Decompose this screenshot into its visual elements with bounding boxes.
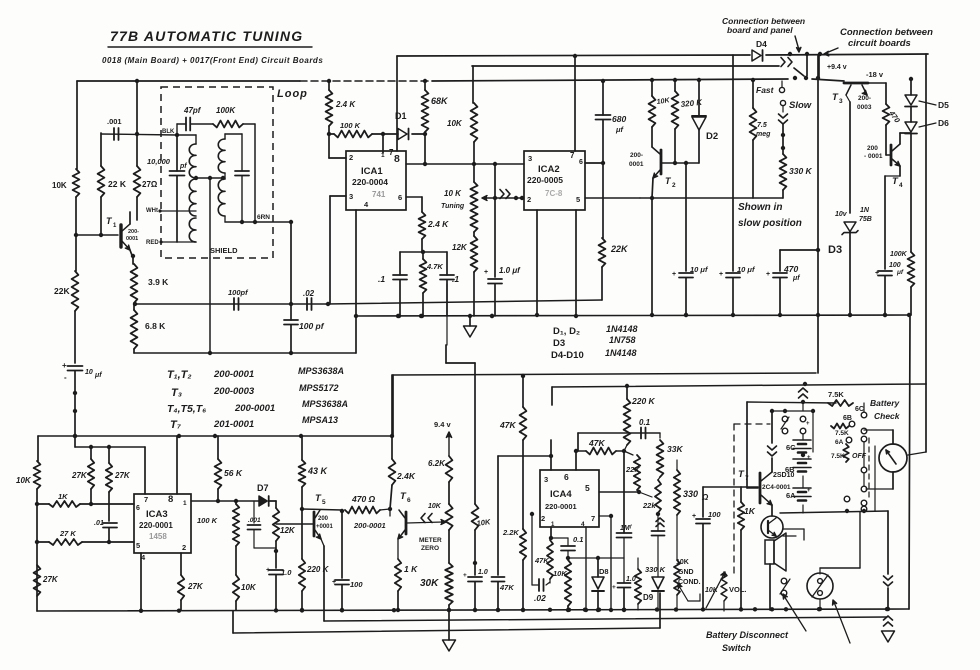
svg-text:220-0004: 220-0004 (352, 177, 388, 187)
svg-text:6: 6 (398, 193, 402, 202)
svg-text:5: 5 (322, 499, 326, 506)
svg-text:1.0: 1.0 (281, 568, 292, 577)
svg-text:10K: 10K (705, 587, 719, 594)
svg-text:3.9 K: 3.9 K (148, 277, 169, 287)
svg-text:Tuning: Tuning (441, 203, 465, 210)
svg-text:+9.4 v: +9.4 v (827, 64, 847, 71)
svg-text:200-0003: 200-0003 (213, 386, 255, 397)
svg-text:Connection between: Connection between (840, 27, 933, 38)
svg-text:+: + (766, 271, 770, 278)
svg-text:ICA4: ICA4 (550, 489, 572, 500)
svg-text:4: 4 (581, 521, 585, 528)
svg-text:27Ω: 27Ω (142, 180, 158, 189)
svg-text:27 K: 27 K (59, 529, 76, 538)
svg-text:4: 4 (899, 182, 903, 189)
svg-text:1: 1 (381, 152, 385, 159)
svg-text:2: 2 (182, 543, 186, 552)
svg-text:7.5K: 7.5K (831, 453, 845, 460)
svg-text:Battery Disconnect: Battery Disconnect (706, 630, 789, 640)
svg-text:Shown in: Shown in (738, 202, 782, 213)
svg-text:201-0001: 201-0001 (213, 419, 254, 430)
svg-text:Check: Check (874, 411, 901, 421)
svg-text:200: 200 (318, 516, 329, 522)
svg-text:12K: 12K (280, 526, 296, 535)
svg-text:T: T (665, 176, 672, 186)
svg-text:0001: 0001 (629, 161, 644, 168)
svg-text:9.4 v: 9.4 v (434, 420, 452, 429)
svg-text:100K: 100K (890, 251, 908, 258)
svg-text:100: 100 (350, 580, 363, 589)
svg-text:30K: 30K (420, 578, 439, 589)
svg-text:33K: 33K (667, 444, 683, 454)
svg-text:43 K: 43 K (307, 466, 329, 476)
svg-text:220 K: 220 K (631, 396, 656, 406)
svg-text:75B: 75B (859, 216, 872, 223)
svg-text:T: T (832, 92, 839, 103)
svg-text:47pf: 47pf (183, 106, 202, 115)
svg-text:BLK: BLK (162, 129, 175, 135)
svg-text:10K: 10K (676, 559, 689, 566)
svg-text:+: + (807, 488, 811, 494)
svg-text:T₁,T₂: T₁,T₂ (167, 369, 192, 381)
svg-text:.001: .001 (107, 117, 122, 126)
svg-text:100: 100 (889, 262, 901, 269)
svg-text:56 K: 56 K (224, 468, 243, 478)
svg-text:1N758: 1N758 (609, 335, 636, 345)
svg-text:+: + (807, 455, 811, 461)
svg-text:1 K: 1 K (404, 564, 418, 574)
svg-text:D5: D5 (938, 100, 949, 110)
svg-text:board and panel: board and panel (727, 25, 793, 35)
svg-text:3: 3 (839, 98, 843, 105)
svg-text:circuit boards: circuit boards (848, 38, 911, 49)
svg-text:6A: 6A (786, 491, 796, 500)
svg-text:1N4148: 1N4148 (606, 324, 638, 334)
svg-text:+: + (719, 271, 723, 278)
svg-text:10,000: 10,000 (147, 157, 171, 166)
svg-text:320 K: 320 K (680, 98, 703, 109)
svg-text:2.2K: 2.2K (502, 528, 519, 537)
svg-text:10K: 10K (476, 517, 491, 528)
svg-text:ZERO: ZERO (421, 545, 439, 552)
svg-text:4: 4 (364, 200, 369, 209)
svg-text:1.0: 1.0 (626, 576, 636, 583)
svg-text:10 μf: 10 μf (737, 265, 756, 274)
svg-text:220-0005: 220-0005 (527, 175, 563, 185)
svg-text:7C-8: 7C-8 (545, 189, 563, 198)
svg-text:D3: D3 (828, 244, 842, 256)
svg-text:Switch: Switch (722, 643, 752, 653)
svg-text:100pf: 100pf (228, 288, 249, 297)
svg-text:2: 2 (672, 182, 676, 189)
svg-text:+: + (672, 271, 676, 278)
svg-text:1Mᶠ: 1Mᶠ (620, 525, 633, 532)
svg-text:COND.: COND. (678, 579, 701, 586)
svg-text:- 0001: - 0001 (864, 153, 883, 160)
svg-text:ICA2: ICA2 (538, 164, 560, 175)
svg-text:3: 3 (528, 154, 532, 163)
svg-text:220-0001: 220-0001 (139, 521, 173, 530)
svg-text:1.0 μf: 1.0 μf (499, 266, 521, 275)
svg-text:6: 6 (579, 159, 583, 166)
svg-text:0003: 0003 (857, 104, 872, 111)
svg-text:100 pf: 100 pf (299, 321, 325, 331)
svg-text:μf: μf (896, 269, 904, 276)
svg-text:10v: 10v (835, 211, 848, 218)
svg-text:6B: 6B (785, 465, 795, 474)
svg-text:+: + (806, 421, 810, 427)
svg-text:D4-D10: D4-D10 (551, 350, 584, 361)
svg-text:10K: 10K (447, 119, 463, 128)
svg-text:6: 6 (407, 497, 411, 504)
svg-text:D6: D6 (938, 118, 949, 128)
svg-text:0.1: 0.1 (573, 535, 583, 544)
svg-text:7: 7 (591, 514, 595, 523)
svg-text:T: T (738, 469, 745, 480)
svg-text:6: 6 (564, 472, 569, 482)
svg-text:.1: .1 (452, 274, 459, 284)
svg-text:2.4K: 2.4K (396, 471, 416, 481)
svg-text:47K: 47K (534, 556, 549, 565)
svg-text:+: + (612, 584, 616, 591)
svg-text:22K: 22K (610, 244, 629, 254)
svg-text:5: 5 (585, 483, 590, 493)
svg-text:1: 1 (183, 500, 187, 507)
svg-text:+: + (484, 269, 488, 276)
svg-text:6.2K: 6.2K (428, 459, 446, 468)
svg-text:T: T (892, 176, 899, 187)
svg-text:slow position: slow position (738, 218, 802, 229)
svg-text:-18 v: -18 v (866, 70, 884, 79)
svg-text:10K: 10K (656, 97, 671, 106)
svg-text:77B AUTOMATIC TUNING: 77B AUTOMATIC TUNING (110, 28, 303, 44)
svg-text:μf: μf (94, 372, 102, 379)
svg-text:D9: D9 (643, 593, 654, 602)
svg-text:MPS3638A: MPS3638A (302, 399, 348, 409)
svg-text:T₃: T₃ (171, 387, 182, 399)
svg-text:2.4 K: 2.4 K (427, 219, 449, 229)
svg-text:330 K: 330 K (789, 166, 813, 176)
svg-text:D2: D2 (706, 131, 718, 142)
svg-text:T₇: T₇ (170, 419, 182, 431)
svg-text:μf: μf (792, 275, 800, 282)
svg-text:.01: .01 (94, 520, 104, 527)
svg-text:6A: 6A (835, 439, 844, 446)
svg-text:470 Ω: 470 Ω (351, 494, 376, 504)
svg-text:3: 3 (544, 475, 548, 484)
svg-text:GND: GND (678, 569, 694, 576)
svg-text:D7: D7 (257, 483, 269, 493)
svg-text:220 K: 220 K (306, 565, 330, 574)
svg-text:10K: 10K (16, 476, 32, 485)
svg-text:10K: 10K (428, 503, 442, 510)
svg-text:22k: 22k (642, 501, 656, 510)
svg-text:WHt: WHt (146, 208, 158, 214)
svg-text:100 K: 100 K (197, 516, 218, 525)
svg-text:100K: 100K (216, 106, 236, 115)
svg-text:VOL.: VOL. (729, 585, 747, 594)
svg-text:1: 1 (113, 223, 117, 229)
svg-text:2: 2 (541, 514, 545, 523)
svg-text:47K: 47K (588, 438, 605, 448)
svg-text:27K: 27K (71, 471, 88, 480)
svg-text:D3: D3 (553, 338, 565, 349)
svg-text:6C: 6C (786, 443, 796, 452)
svg-text:10: 10 (85, 369, 93, 376)
svg-text:1K: 1K (58, 492, 68, 501)
svg-text:470: 470 (783, 264, 798, 274)
svg-text:MPSA13: MPSA13 (302, 415, 338, 425)
svg-text:6RN: 6RN (257, 214, 270, 221)
svg-text:330 K: 330 K (645, 565, 666, 574)
svg-text:MPS3638A: MPS3638A (298, 366, 344, 376)
svg-text:7: 7 (570, 151, 575, 160)
svg-text:D8: D8 (599, 567, 609, 576)
svg-text:Slow: Slow (789, 100, 812, 111)
svg-text:10 μf: 10 μf (690, 265, 709, 274)
svg-text:D1: D1 (395, 111, 407, 121)
svg-text:Battery: Battery (870, 398, 901, 408)
svg-text:Loop: Loop (277, 88, 308, 100)
svg-text:10 K: 10 K (444, 189, 462, 198)
svg-text:meg: meg (756, 131, 771, 138)
svg-text:22K: 22K (625, 465, 640, 474)
svg-text:1.0: 1.0 (478, 569, 488, 576)
svg-text:D4: D4 (756, 39, 767, 49)
svg-text:+: + (463, 572, 467, 579)
svg-text:1K: 1K (744, 506, 756, 516)
svg-text:2C4-0001: 2C4-0001 (762, 484, 791, 491)
svg-text:5: 5 (136, 541, 140, 550)
svg-text:0.1: 0.1 (639, 418, 651, 427)
svg-text:1458: 1458 (149, 532, 167, 541)
svg-text:.001: .001 (248, 517, 261, 524)
svg-text:200-0001: 200-0001 (213, 369, 254, 380)
svg-text:.02: .02 (534, 593, 546, 603)
svg-text:200-: 200- (128, 229, 139, 235)
svg-text:47K: 47K (499, 420, 516, 430)
svg-text:.1: .1 (378, 274, 385, 284)
svg-text:10K: 10K (553, 569, 567, 578)
svg-text:68K: 68K (431, 96, 449, 106)
svg-text:27K: 27K (114, 471, 131, 480)
svg-text:680: 680 (612, 114, 626, 124)
svg-text:200-0001: 200-0001 (353, 521, 386, 530)
svg-text:ICA1: ICA1 (361, 166, 383, 177)
svg-text:8: 8 (168, 494, 173, 505)
svg-text:0001: 0001 (126, 236, 138, 242)
svg-text:8: 8 (394, 153, 400, 165)
svg-text:27K: 27K (187, 582, 204, 591)
svg-text:100 K: 100 K (340, 121, 361, 130)
svg-text:200-: 200- (858, 95, 871, 102)
svg-text:2.4 K: 2.4 K (335, 100, 356, 109)
svg-text:22 K: 22 K (108, 179, 127, 189)
svg-text:SHIELD: SHIELD (210, 246, 238, 255)
svg-text:7: 7 (144, 495, 148, 504)
svg-text:0018 (Main Board) + 0017(Fron: 0018 (Main Board) + 0017(Front End) Circ… (102, 56, 323, 65)
svg-text:μf: μf (615, 125, 625, 134)
svg-text:Fast: Fast (756, 85, 775, 95)
svg-text:10K: 10K (52, 181, 67, 190)
svg-text:200: 200 (867, 145, 878, 152)
svg-text:T: T (106, 216, 113, 226)
svg-text:D₁, D₂: D₁, D₂ (553, 326, 580, 337)
svg-text:100: 100 (708, 510, 721, 519)
svg-text:47K: 47K (499, 583, 514, 592)
svg-text:200-: 200- (630, 152, 643, 159)
svg-text:+: + (62, 361, 67, 370)
svg-text:2: 2 (527, 195, 531, 204)
svg-text:ICA3: ICA3 (146, 509, 168, 520)
svg-text:-: - (64, 373, 67, 382)
svg-text:741: 741 (372, 190, 386, 199)
svg-text:+0001: +0001 (316, 524, 334, 530)
svg-text:MPS5172: MPS5172 (299, 383, 339, 393)
svg-text:T₄,T5,T₆: T₄,T5,T₆ (167, 403, 206, 415)
svg-text:7.5: 7.5 (757, 122, 767, 129)
svg-text:METER: METER (419, 537, 442, 544)
svg-text:RED: RED (146, 240, 159, 246)
svg-text:27K: 27K (42, 575, 59, 584)
svg-text:1N4148: 1N4148 (605, 348, 637, 358)
svg-text:7.5K: 7.5K (835, 430, 849, 437)
svg-text:.02: .02 (303, 289, 315, 298)
svg-text:200-0001: 200-0001 (234, 403, 275, 414)
svg-text:22K: 22K (54, 286, 70, 296)
svg-text:6: 6 (136, 505, 140, 512)
svg-text:330: 330 (683, 489, 698, 499)
svg-text:6.8 K: 6.8 K (145, 321, 166, 331)
svg-text:7.5K: 7.5K (828, 390, 844, 399)
svg-text:pf: pf (179, 163, 187, 170)
svg-text:3: 3 (349, 192, 353, 201)
svg-text:2: 2 (349, 153, 353, 162)
svg-text:T: T (315, 493, 322, 504)
svg-text:10K: 10K (241, 583, 257, 592)
svg-text:1N: 1N (860, 207, 870, 214)
svg-text:4.7K: 4.7K (426, 262, 443, 271)
svg-text:12K: 12K (452, 243, 468, 252)
svg-text:5: 5 (576, 195, 580, 204)
svg-text:T: T (400, 491, 407, 502)
svg-text:220-0001: 220-0001 (545, 502, 577, 511)
